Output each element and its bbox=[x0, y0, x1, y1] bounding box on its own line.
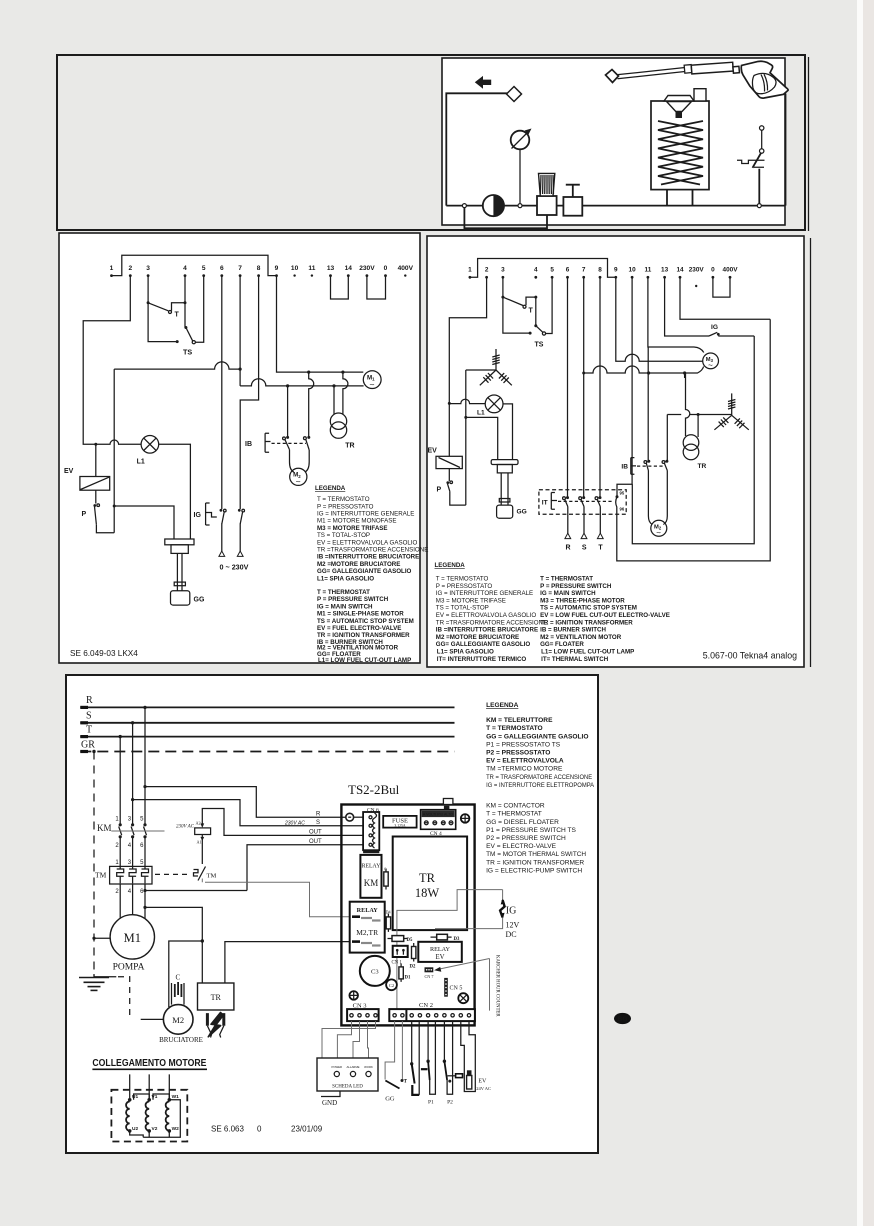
svg-text:A VOLTI PIU ALTO: A VOLTI PIU ALTO bbox=[423, 813, 453, 817]
top screws bbox=[461, 814, 470, 823]
spray lance nozzle bbox=[606, 61, 789, 98]
svg-text:KM: KM bbox=[364, 878, 379, 888]
board outline bbox=[341, 805, 474, 1026]
svg-text:IT= THERMAL SWITCH: IT= THERMAL SWITCH bbox=[541, 656, 609, 663]
line y414.5 corner to Y2 bbox=[667, 414, 731, 416]
svg-text:GND: GND bbox=[322, 1099, 337, 1107]
svg-text:C: C bbox=[176, 974, 181, 982]
D1 diode bbox=[399, 964, 411, 982]
Y motor symbol 1 (M3 winding) bbox=[480, 349, 512, 385]
branch bus2 to IB left bbox=[286, 384, 289, 437]
svg-text:~: ~ bbox=[370, 380, 375, 390]
svg-text:CN 7: CN 7 bbox=[425, 974, 434, 979]
P right bbox=[437, 469, 466, 506]
labels U1 V1 W1 bbox=[132, 1094, 179, 1132]
wire 5 right bbox=[546, 277, 552, 333]
svg-text:GG= GALLEGGIANTE GASOLIO: GG= GALLEGGIANTE GASOLIO bbox=[317, 568, 412, 575]
svg-text:OUT: OUT bbox=[309, 839, 322, 845]
svg-text:TS = TOTAL-STOP: TS = TOTAL-STOP bbox=[436, 605, 489, 612]
jumper 0-400V bbox=[713, 277, 730, 297]
svg-text:KARCHER HOUR COUNTER: KARCHER HOUR COUNTER bbox=[495, 955, 500, 1017]
svg-text:P2 = PRESSOSTATO: P2 = PRESSOSTATO bbox=[486, 750, 550, 757]
wire 10 and thermal contact bbox=[617, 277, 632, 495]
svg-text:P = PRESSOSTATO: P = PRESSOSTATO bbox=[317, 503, 374, 510]
svg-text:V2: V2 bbox=[152, 1126, 158, 1132]
svg-text:T: T bbox=[529, 308, 534, 315]
Y motor symbol 2 bbox=[714, 393, 748, 429]
svg-text:D1: D1 bbox=[405, 976, 411, 981]
svg-text:18W: 18W bbox=[415, 886, 440, 900]
GG floater bbox=[165, 539, 205, 605]
CN6 line labels bbox=[284, 812, 322, 846]
left drop from bus1 bbox=[113, 369, 115, 533]
wire 9 to M3 middle with hop over 10 bbox=[616, 277, 703, 361]
svg-text:TS: TS bbox=[183, 348, 192, 357]
svg-text:EV: EV bbox=[428, 448, 438, 455]
svg-text:P1 = PRESSURE SWITCH TS: P1 = PRESSURE SWITCH TS bbox=[486, 827, 576, 834]
svg-text:OUT: OUT bbox=[309, 830, 322, 836]
earth ground bbox=[79, 974, 116, 990]
svg-text:0: 0 bbox=[384, 265, 388, 272]
svg-text:RELAY: RELAY bbox=[430, 946, 451, 953]
TR right panel leads bbox=[685, 373, 690, 436]
CN6 connector bbox=[363, 808, 379, 854]
svg-text:0: 0 bbox=[257, 1125, 262, 1134]
svg-text:IB = BURNER SWITCH: IB = BURNER SWITCH bbox=[540, 627, 606, 634]
GG switch bottom bbox=[385, 1021, 407, 1102]
svg-text:M2,TR: M2,TR bbox=[356, 928, 378, 937]
terminal dots right panel bbox=[469, 276, 472, 279]
svg-text:24V AC: 24V AC bbox=[476, 1086, 491, 1091]
jumper 230V-0 bbox=[367, 276, 386, 299]
hydraulic white box bbox=[442, 58, 785, 225]
capacitor C bbox=[172, 974, 185, 1005]
svg-text:T = TERMOSTATO: T = TERMOSTATO bbox=[317, 496, 370, 503]
TR burner box bbox=[198, 983, 234, 1010]
OUT1 line to KM coil bbox=[202, 809, 363, 836]
svg-text:3: 3 bbox=[501, 267, 505, 274]
svg-text:P = PRESSURE SWITCH: P = PRESSURE SWITCH bbox=[540, 583, 612, 590]
inner return rect bbox=[632, 336, 754, 544]
T contact bbox=[147, 301, 187, 318]
svg-text:GG: GG bbox=[517, 509, 527, 516]
wires to R S T arrows bbox=[568, 507, 601, 534]
col6 branch to TR burner bbox=[143, 906, 146, 909]
wire 3 with T node bbox=[147, 276, 149, 303]
gun drop wire bbox=[785, 94, 787, 206]
T thermostat loop bbox=[404, 1021, 420, 1095]
svg-text:DC: DC bbox=[506, 930, 517, 939]
bottom screws bbox=[349, 991, 358, 1000]
svg-text:KM: KM bbox=[97, 823, 112, 833]
svg-text:IB: IB bbox=[245, 441, 252, 448]
svg-text:IG = MAIN SWITCH: IG = MAIN SWITCH bbox=[540, 590, 596, 597]
svg-text:IG = ELECTRIC-PUMP SWITCH: IG = ELECTRIC-PUMP SWITCH bbox=[486, 867, 582, 874]
CN5 strip bbox=[444, 978, 462, 997]
wire 9 to M1 upper bbox=[277, 276, 364, 373]
svg-text:11: 11 bbox=[645, 267, 652, 274]
svg-text:L1= LOW FUEL CUT-OUT LAMP: L1= LOW FUEL CUT-OUT LAMP bbox=[318, 657, 411, 664]
svg-text:11: 11 bbox=[308, 265, 315, 272]
svg-text:TR = IGNITION TRANSFORMER: TR = IGNITION TRANSFORMER bbox=[540, 619, 633, 626]
svg-text:GG= GALLEGGIANTE GASOLIO: GG= GALLEGGIANTE GASOLIO bbox=[436, 641, 531, 648]
svg-text:P2: P2 bbox=[447, 1100, 453, 1106]
svg-text:SCHEDA LED: SCHEDA LED bbox=[332, 1085, 363, 1090]
mid-left panel frame bbox=[59, 233, 420, 663]
svg-text:TS = AUTOMATIC STOP SYSTEM: TS = AUTOMATIC STOP SYSTEM bbox=[317, 618, 414, 625]
svg-text:P: P bbox=[82, 511, 87, 518]
svg-text:KM = TELERUTTORE: KM = TELERUTTORE bbox=[486, 717, 553, 724]
svg-text:13: 13 bbox=[327, 265, 335, 272]
svg-text:C2: C2 bbox=[389, 983, 394, 988]
svg-text:A2: A2 bbox=[196, 821, 201, 826]
svg-text:COLLEGAMENTO MOTORE: COLLEGAMENTO MOTORE bbox=[92, 1058, 206, 1069]
legend bottom panel bbox=[486, 702, 595, 874]
svg-text:6: 6 bbox=[566, 267, 570, 274]
svg-text:TR =TRASFORMATORE ACCENSIONE: TR =TRASFORMATORE ACCENSIONE bbox=[436, 619, 547, 626]
branch to M2 bbox=[169, 941, 203, 1007]
svg-text:EV = FUEL ELECTRO-VALVE: EV = FUEL ELECTRO-VALVE bbox=[317, 625, 401, 632]
chimney bbox=[694, 89, 706, 101]
TR transformer right bbox=[683, 435, 706, 470]
svg-text:12V: 12V bbox=[506, 921, 520, 930]
TM aux contact bbox=[155, 867, 216, 881]
svg-text:2: 2 bbox=[128, 265, 132, 272]
col6 line A to OUT2 bbox=[143, 889, 146, 892]
svg-text:EV = ELETTROVALVOLA: EV = ELETTROVALVOLA bbox=[486, 758, 564, 765]
TR 18W box bbox=[393, 837, 467, 931]
svg-text:9: 9 bbox=[275, 265, 279, 272]
hour counter pointer bbox=[434, 955, 499, 1017]
flow switch bbox=[737, 126, 765, 208]
svg-text:7: 7 bbox=[238, 265, 242, 272]
node at gauge line bbox=[518, 204, 522, 208]
svg-text:230V: 230V bbox=[689, 267, 705, 274]
wire 11 to M3 upper bbox=[648, 277, 704, 352]
svg-text:POMPA: POMPA bbox=[113, 963, 145, 973]
mid-right shadow line bbox=[810, 238, 812, 667]
svg-text:95: 95 bbox=[620, 491, 625, 496]
feed into Y1 bbox=[466, 369, 496, 371]
svg-text:230V AC: 230V AC bbox=[176, 825, 195, 830]
svg-text:A1: A1 bbox=[197, 840, 202, 845]
svg-text:IG: IG bbox=[194, 512, 202, 519]
svg-text:POWER: POWER bbox=[332, 1065, 343, 1069]
lamp row right with hop bbox=[449, 399, 485, 403]
svg-text:TS2-2Bul: TS2-2Bul bbox=[348, 782, 400, 797]
winding coil U bbox=[126, 1098, 131, 1133]
svg-text:6: 6 bbox=[220, 265, 224, 272]
pressure gauge bbox=[511, 129, 532, 206]
R S T GR supply lines bbox=[80, 695, 454, 707]
lamp right wire to GG bbox=[159, 444, 191, 539]
P1 pressure switch loop bbox=[421, 1021, 436, 1105]
CN3 connector bbox=[347, 1003, 379, 1022]
wire 8 jog to IG right bbox=[240, 276, 258, 509]
delta link steps bbox=[134, 1094, 150, 1100]
svg-text:BRUCIATORE: BRUCIATORE bbox=[159, 1036, 203, 1044]
vertical x465.8 bbox=[465, 370, 467, 505]
R branch to CN6 bbox=[143, 785, 146, 788]
svg-text:P1 = PRESSOSTATO TS: P1 = PRESSOSTATO TS bbox=[486, 741, 561, 748]
svg-text:W2: W2 bbox=[172, 1126, 180, 1132]
svg-text:M3 = MOTORE TRIFASE: M3 = MOTORE TRIFASE bbox=[317, 525, 388, 532]
wire 13 and IG bbox=[665, 277, 755, 336]
svg-text:IB =INTERRUTTORE BRUCIATORE: IB =INTERRUTTORE BRUCIATORE bbox=[317, 554, 419, 561]
svg-text:EV = ELETTROVALVOLA GASOLIO: EV = ELETTROVALVOLA GASOLIO bbox=[317, 539, 418, 546]
svg-text:T = TERMOSTATO: T = TERMOSTATO bbox=[486, 725, 543, 732]
svg-text:TR: TR bbox=[345, 443, 354, 450]
funnel bbox=[664, 96, 694, 119]
svg-text:GR: GR bbox=[81, 740, 95, 751]
GG right bbox=[491, 460, 527, 519]
winding feed wires bbox=[130, 1074, 170, 1098]
svg-text:M1 = SINGLE-PHASE MOTOR: M1 = SINGLE-PHASE MOTOR bbox=[317, 611, 404, 618]
motor winding dashed box bbox=[111, 1090, 187, 1142]
svg-text:230V: 230V bbox=[359, 265, 375, 272]
bottom panel frame bbox=[66, 675, 598, 1153]
svg-text:~: ~ bbox=[708, 361, 713, 370]
svg-text:M1: M1 bbox=[124, 931, 141, 945]
svg-text:TR: TR bbox=[419, 871, 436, 885]
svg-text:5: 5 bbox=[550, 267, 554, 274]
TS right bbox=[534, 297, 545, 348]
top bus 1-9 right panel bbox=[470, 259, 616, 278]
wires 6 7 8 to IT bbox=[568, 277, 601, 496]
TM columns to M1 bbox=[120, 884, 145, 919]
branch bus2 to TR left bbox=[332, 384, 335, 414]
lamp L1 bbox=[137, 436, 159, 466]
RELAY M2,TR bbox=[350, 902, 385, 953]
svg-text:96: 96 bbox=[620, 507, 625, 512]
scan edge white strip bbox=[857, 0, 863, 1226]
svg-text:M3 = THREE-PHASE MOTOR: M3 = THREE-PHASE MOTOR bbox=[540, 597, 625, 604]
branch bus1 to IB right (bulge over bus2) bbox=[307, 371, 314, 438]
pump bbox=[483, 195, 504, 216]
wire diamond to left and down bbox=[446, 93, 507, 205]
M2 motor leads bbox=[290, 450, 310, 473]
CN3 wires to LED board bbox=[337, 1021, 351, 1058]
CN1 two-pin connector bbox=[392, 946, 408, 966]
svg-text:C3: C3 bbox=[371, 969, 379, 976]
svg-text:10: 10 bbox=[629, 267, 637, 274]
C3 capacitor bbox=[360, 956, 390, 986]
svg-text:TR =TRASFORMATORE ACCENSIONE: TR =TRASFORMATORE ACCENSIONE bbox=[317, 547, 428, 554]
svg-text:S: S bbox=[86, 711, 92, 722]
wire 11 continues to IB left bbox=[647, 347, 649, 461]
RELAY KM bbox=[360, 855, 381, 898]
wire 4 and TS blade bbox=[184, 276, 186, 328]
EV valve bottom bbox=[461, 1021, 491, 1091]
svg-text:5.067-00 Tekna4 analog: 5.067-00 Tekna4 analog bbox=[703, 651, 797, 661]
svg-text:EV = LOW FUEL CUT-OUT ELECTRO-: EV = LOW FUEL CUT-OUT ELECTRO-VALVE bbox=[540, 612, 670, 619]
svg-text:TR: TR bbox=[698, 463, 707, 470]
svg-text:EV = ELECTRO-VALVE: EV = ELECTRO-VALVE bbox=[486, 843, 557, 850]
tank legs bbox=[667, 190, 693, 206]
svg-text:P1: P1 bbox=[428, 1100, 434, 1106]
svg-text:LEGENDA: LEGENDA bbox=[486, 702, 518, 709]
svg-text:TS: TS bbox=[535, 342, 544, 349]
svg-text:EV = ELETTROVALVOLA GASOLIO: EV = ELETTROVALVOLA GASOLIO bbox=[436, 612, 537, 619]
svg-text:4: 4 bbox=[183, 265, 187, 272]
EV valve bbox=[64, 444, 110, 490]
svg-text:2: 2 bbox=[485, 267, 489, 274]
svg-text:TR = TRASFORMATORE ACCENSIONE: TR = TRASFORMATORE ACCENSIONE bbox=[486, 774, 593, 781]
S branch to CN6 bbox=[131, 798, 134, 801]
svg-text:BG: BG bbox=[618, 1016, 628, 1023]
M2 motor bbox=[290, 468, 307, 486]
flow arrow bbox=[475, 76, 491, 89]
SCHEDA LED board bbox=[317, 1058, 378, 1091]
COLLEGAMENTO MOTORE bbox=[92, 1058, 207, 1069]
ignition electrodes bbox=[207, 1013, 223, 1038]
svg-text:T: T bbox=[175, 312, 180, 319]
M1 left lead from GR bbox=[92, 937, 95, 940]
svg-text:SE 6.063: SE 6.063 bbox=[211, 1125, 244, 1134]
CN4 bbox=[421, 810, 456, 837]
gun body bbox=[741, 61, 788, 98]
D2 diode bbox=[410, 943, 416, 970]
M3 lower lead curve bbox=[685, 367, 704, 374]
KM contactor bbox=[97, 817, 165, 850]
svg-text:TS = TOTAL-STOP: TS = TOTAL-STOP bbox=[317, 532, 370, 539]
lamp row with hop over x114 bbox=[96, 440, 141, 444]
valve stem bbox=[566, 185, 580, 197]
GR dashed drop bbox=[92, 750, 95, 753]
unloader valve body bbox=[537, 196, 557, 215]
resistor next to RELAY KM bbox=[384, 867, 388, 890]
gray IG feed path inside board bbox=[397, 890, 503, 1010]
P2 pressure switch loop bbox=[443, 1021, 463, 1105]
svg-text:IG = INTERRUTTORE GENERALE: IG = INTERRUTTORE GENERALE bbox=[317, 511, 414, 518]
svg-text:D2: D2 bbox=[410, 965, 416, 970]
svg-text:CN 2: CN 2 bbox=[419, 1002, 433, 1009]
wire 2 to EV branch bbox=[83, 276, 130, 445]
svg-text:0 ~ 230V: 0 ~ 230V bbox=[220, 563, 249, 572]
M3 motor bbox=[703, 353, 719, 370]
GND lead bbox=[321, 1091, 340, 1097]
svg-text:14: 14 bbox=[676, 267, 684, 274]
svg-text:IG: IG bbox=[506, 906, 517, 917]
svg-text:M2 =MOTORE BRUCIATORE: M2 =MOTORE BRUCIATORE bbox=[317, 561, 400, 568]
svg-text:R: R bbox=[86, 695, 93, 706]
svg-text:10: 10 bbox=[291, 265, 299, 272]
P to GG horizontal bbox=[114, 506, 174, 539]
bus1 with hop over wire6 bbox=[114, 362, 240, 369]
svg-text:T = TERMOSTATO: T = TERMOSTATO bbox=[436, 576, 489, 583]
phase drops R S T bbox=[143, 706, 146, 709]
svg-text:23/01/09: 23/01/09 bbox=[291, 1125, 323, 1134]
svg-text:M2 = VENTILATION MOTOR: M2 = VENTILATION MOTOR bbox=[540, 634, 622, 641]
svg-text:1: 1 bbox=[110, 265, 114, 272]
svg-text:IT= INTERRUTTORE TERMICO: IT= INTERRUTTORE TERMICO bbox=[437, 656, 527, 663]
relay lower line to TR burner right lead bbox=[225, 942, 351, 983]
second valve body bbox=[563, 197, 582, 216]
svg-text:400V: 400V bbox=[723, 267, 739, 274]
IT dashed box bbox=[539, 490, 626, 515]
IG switch right of board bbox=[435, 890, 520, 939]
svg-text:L1= SPIA GASOLIO: L1= SPIA GASOLIO bbox=[317, 576, 374, 583]
wire 2 right panel bbox=[449, 277, 486, 456]
svg-text:SE 6.049-03 LKX4: SE 6.049-03 LKX4 bbox=[70, 649, 138, 658]
svg-text:TM: TM bbox=[207, 873, 217, 880]
svg-text:7: 7 bbox=[582, 267, 586, 274]
TR transformer bbox=[330, 413, 354, 450]
wire 14 to outer return bbox=[680, 277, 770, 319]
M2 burner motor bbox=[159, 1005, 203, 1044]
winding coil W bbox=[166, 1098, 171, 1133]
svg-text:GG = GALLEGGIANTE GASOLIO: GG = GALLEGGIANTE GASOLIO bbox=[486, 733, 588, 740]
wire 5 bbox=[196, 276, 204, 343]
svg-text:TR = IGNITION TRANSFORMER: TR = IGNITION TRANSFORMER bbox=[486, 859, 584, 866]
svg-text:~: ~ bbox=[296, 477, 301, 487]
boiler tank bbox=[651, 101, 709, 190]
CN7 counter connector bbox=[425, 967, 434, 979]
svg-text:LEGENDA: LEGENDA bbox=[435, 562, 466, 569]
TM thermal block bbox=[95, 860, 152, 895]
IT contacts on 6 7 8 bbox=[563, 496, 602, 506]
node line to GG left bbox=[466, 417, 498, 459]
svg-text:IG = INTERRUTTORE ELETTROPOMPA: IG = INTERRUTTORE ELETTROPOMPA bbox=[486, 782, 595, 789]
board top connector nub bbox=[443, 799, 453, 805]
lamp L1 right bbox=[477, 395, 503, 417]
wire 3 lower + fixed contact bbox=[503, 297, 530, 333]
TM out line to relay M2TR bbox=[202, 879, 351, 917]
svg-text:L1: L1 bbox=[137, 459, 145, 466]
KM columns to TM bbox=[120, 837, 145, 867]
KM coil bbox=[176, 821, 211, 865]
top panel shadow line bbox=[808, 57, 810, 231]
svg-text:8: 8 bbox=[257, 265, 261, 272]
svg-text:L1: L1 bbox=[477, 410, 485, 417]
svg-text:EV: EV bbox=[435, 954, 444, 961]
svg-text:14: 14 bbox=[345, 265, 353, 272]
svg-text:EV: EV bbox=[478, 1079, 487, 1085]
svg-text:9: 9 bbox=[614, 267, 618, 274]
lamp right to GG right bbox=[503, 404, 513, 460]
svg-text:L1= LOW FUEL CUT-OUT LAMP: L1= LOW FUEL CUT-OUT LAMP bbox=[541, 649, 634, 656]
FUSE bbox=[383, 816, 416, 828]
svg-text:3: 3 bbox=[146, 265, 150, 272]
BG badge bbox=[614, 1013, 631, 1024]
node on pipe left bbox=[462, 204, 466, 208]
M1 motor pump bbox=[110, 915, 154, 973]
svg-text:13: 13 bbox=[661, 267, 669, 274]
svg-text:W1: W1 bbox=[172, 1094, 180, 1100]
EV right bbox=[428, 448, 463, 469]
legend left panel bbox=[315, 485, 428, 664]
svg-text:IB =INTERRUTTORE BRUCIATORE: IB =INTERRUTTORE BRUCIATORE bbox=[436, 627, 538, 634]
svg-text:R: R bbox=[316, 812, 321, 818]
svg-text:230V AC: 230V AC bbox=[284, 821, 305, 827]
svg-text:T = THERMOSTAT: T = THERMOSTAT bbox=[317, 589, 370, 596]
IG switch bbox=[194, 503, 249, 572]
svg-text:M1 = MOTORE MONOFASE: M1 = MOTORE MONOFASE bbox=[317, 518, 396, 525]
svg-text:R: R bbox=[565, 545, 570, 552]
dashed path to M2 bbox=[118, 977, 130, 1020]
svg-text:EV: EV bbox=[64, 468, 74, 475]
svg-text:M2 =MOTORE BRUCIATORE: M2 =MOTORE BRUCIATORE bbox=[436, 634, 519, 641]
svg-text:U2: U2 bbox=[132, 1126, 138, 1132]
D5 diode bbox=[388, 936, 413, 943]
winding bottom rail bbox=[130, 1100, 181, 1138]
svg-text:D5: D5 bbox=[407, 938, 413, 943]
top bus 1-9 bbox=[112, 255, 277, 275]
mid-right panel frame bbox=[427, 236, 804, 667]
svg-text:5: 5 bbox=[202, 265, 206, 272]
svg-text:P = PRESSURE SWITCH: P = PRESSURE SWITCH bbox=[317, 596, 389, 603]
M1 motor bbox=[363, 371, 381, 390]
